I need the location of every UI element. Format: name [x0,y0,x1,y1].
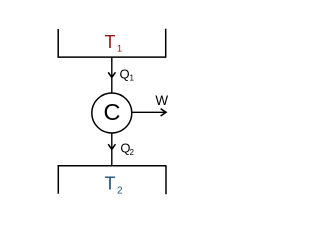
hot reservoir T1 wall [57,29,166,57]
engine circle C [92,93,132,133]
work arrow W [132,109,166,116]
label T1 [105,32,123,54]
svg-text:T: T [105,32,116,52]
svg-text:C: C [104,99,121,125]
label T2 [105,174,124,197]
svg-text:Q: Q [120,66,130,81]
svg-text:2: 2 [117,186,123,197]
svg-text:W: W [155,93,168,108]
svg-text:1: 1 [130,74,135,83]
label Q1 [120,66,135,82]
svg-text:T: T [105,174,116,194]
label Q2 [120,140,134,157]
svg-text:1: 1 [117,43,122,54]
cold reservoir T2 wall [57,166,166,194]
heat flow arrow Q2 [108,133,115,166]
heat flow arrow Q1 [108,57,115,93]
svg-text:2: 2 [130,148,135,157]
